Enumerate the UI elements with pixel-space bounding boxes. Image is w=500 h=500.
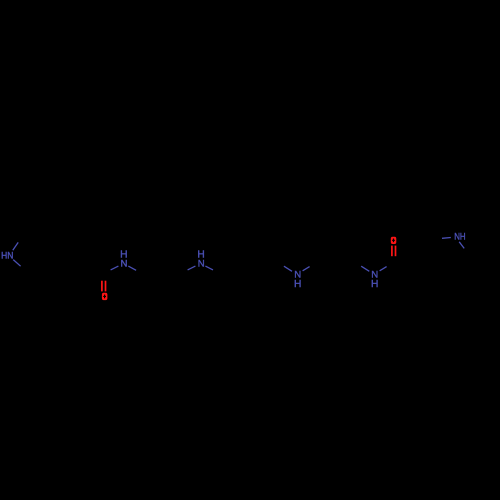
svg-text:HN: HN (1, 250, 13, 261)
amide N4: half-bond up-left (361, 266, 369, 271)
svg-text:N: N (121, 259, 128, 270)
chain N3: half-bond up-left (284, 266, 292, 271)
amide N1: half-bond to carbonyl C (down-left) (111, 266, 119, 270)
chain N3: half-bond up-right (303, 267, 310, 271)
right indole: half-bond to C7a (horizontal left stub) (442, 237, 451, 240)
left carbonyl oxygen label O (102, 293, 108, 300)
svg-text:NH: NH (454, 232, 465, 243)
amide N1: half-bond to chain C (down-right) (128, 266, 136, 270)
svg-text:H: H (371, 279, 378, 290)
chain N2: half-bond down-right (205, 266, 213, 270)
svg-text:N: N (198, 259, 205, 270)
left indole N1' half-bond to C7a (blue stub down-right) (13, 260, 20, 267)
left carbonyl C=O double bond, red halves (101, 281, 103, 292)
right carbonyl C=O double bond, red halves (391, 246, 393, 257)
svg-text:H: H (294, 279, 301, 290)
left indole N1' half-bond to C2 (blue stub up-right) (13, 242, 18, 250)
chain N2: half-bond down-left (188, 266, 196, 270)
right indole: half-bond to C2 (down-right stub) (459, 242, 464, 249)
right carbonyl oxygen label O (391, 237, 397, 244)
carbon skeleton (black on black, invisible) (18, 233, 464, 275)
amide N4: half-bond up-right (to carbonyl C) (380, 267, 387, 271)
